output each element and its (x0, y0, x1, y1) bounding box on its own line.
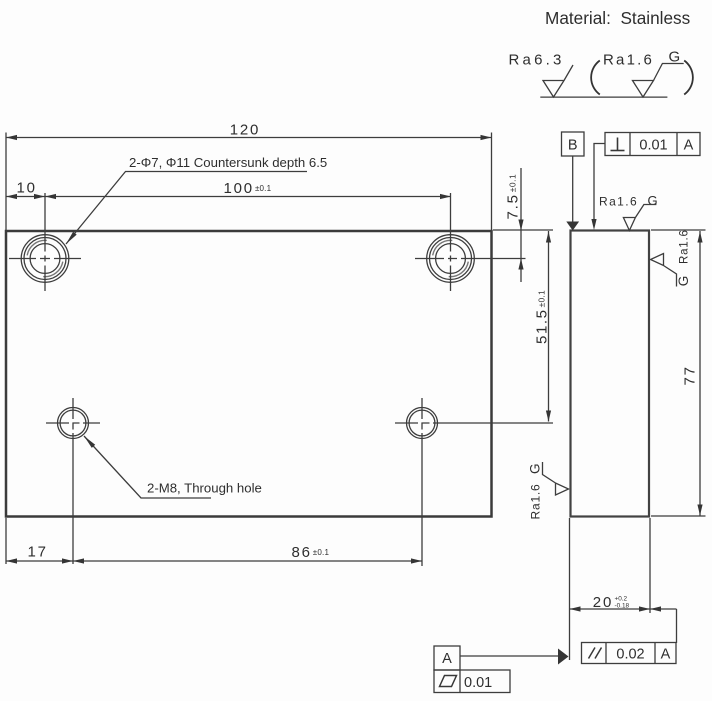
parallelism symbol (589, 648, 602, 659)
side view right edge extension down (649, 518, 651, 613)
svg-text:A: A (661, 647, 671, 663)
datum B box (562, 132, 585, 156)
svg-text:10: 10 (17, 180, 37, 197)
countersunk hole top-right chamfer circle (430, 238, 472, 280)
dimension 51.5 line (548, 231, 550, 422)
svg-text:77: 77 (682, 365, 699, 385)
M8 hole bottom-right core circle (409, 410, 435, 436)
svg-text:Ra1.6: Ra1.6 (679, 229, 691, 264)
perpendicularity frame (605, 133, 700, 156)
svg-text:A: A (684, 138, 694, 154)
dimension 77 line (699, 231, 701, 516)
side view top edge extension right (651, 229, 706, 231)
leader for countersunk holes (66, 172, 307, 245)
flatness symbol (440, 676, 457, 687)
flatness frame (434, 670, 510, 693)
countersunk hole top-left outer circle (21, 235, 69, 283)
side view bottom edge extension right (651, 515, 706, 517)
M8 hole bottom-left outer circle (58, 408, 89, 439)
svg-text:Ra1.6: Ra1.6 (599, 195, 638, 209)
side view outline (571, 231, 650, 517)
M8 hole bottom-right centerlines (395, 422, 553, 424)
svg-text:0.02: 0.02 (616, 647, 644, 663)
parallelism frame (582, 643, 677, 664)
perpendicularity symbol (611, 138, 625, 151)
svg-text:Ra1.6: Ra1.6 (603, 52, 654, 69)
svg-text:G: G (676, 276, 691, 287)
side view top surface symbol (623, 205, 656, 231)
svg-text:+0.2: +0.2 (615, 595, 628, 602)
M8 hole bottom-left core circle (60, 410, 86, 436)
datum B triangle (566, 222, 579, 231)
side view right surface symbol (651, 254, 677, 287)
svg-text:G: G (669, 49, 681, 66)
countersunk hole top-right bore circle (436, 244, 466, 274)
legend surface symbol 1 (543, 65, 573, 97)
svg-text:0.01: 0.01 (464, 675, 492, 691)
datum A box (434, 646, 460, 670)
dimension 120 line (6, 137, 492, 139)
dimension 17 and 86 line (6, 560, 422, 562)
countersunk hole top-right centerlines (415, 258, 526, 260)
M8 hole bottom-right outer circle (407, 408, 438, 439)
top edge right extension line (493, 229, 553, 231)
dimension 7.5 line (520, 168, 522, 282)
svg-text:17: 17 (28, 544, 48, 561)
svg-text:-0.18: -0.18 (615, 602, 630, 609)
datum A leader (460, 655, 558, 657)
svg-text:2-Φ7, Φ11 Countersunk depth 6.: 2-Φ7, Φ11 Countersunk depth 6.5 (129, 155, 327, 170)
svg-text:120: 120 (230, 122, 260, 139)
leader for M8 holes (84, 436, 211, 498)
countersunk hole top-left bore circle (30, 244, 60, 274)
M8 hole bottom-left centerlines (46, 422, 100, 424)
svg-text:A: A (442, 651, 452, 667)
side view left-bottom surface symbol (543, 462, 569, 495)
datum A triangle (558, 649, 569, 665)
countersunk hole top-right thread arcs (433, 240, 469, 276)
svg-text:G: G (528, 463, 543, 474)
svg-text:B: B (568, 138, 578, 154)
countersunk hole top-left thread arcs (27, 240, 63, 276)
svg-text:0.01: 0.01 (639, 138, 667, 154)
countersunk hole top-right outer circle (427, 235, 475, 283)
legend baseline (540, 96, 667, 98)
svg-text:Ra1.6: Ra1.6 (529, 483, 543, 519)
dimension 20 line (570, 608, 677, 610)
side view left edge extension down (569, 518, 571, 660)
countersunk hole top-left chamfer circle (24, 238, 66, 280)
legend open paren (591, 61, 600, 95)
svg-text:Material: Stainless: Material: Stainless (545, 8, 690, 28)
parallelism frame leader (676, 609, 678, 643)
dimension 120 extension lines (5, 133, 7, 231)
front view plate outline (6, 231, 492, 517)
svg-text:20: 20 (593, 594, 613, 611)
dimension 10 and 100 line (6, 196, 451, 198)
svg-text:2-M8, Through hole: 2-M8, Through hole (147, 481, 262, 496)
svg-text:G: G (648, 193, 658, 208)
legend surface symbol 2 with G (633, 64, 684, 98)
datum B leader (572, 156, 574, 222)
legend close paren (684, 61, 693, 95)
perpendicularity leader (594, 144, 605, 227)
countersunk hole top-left centerlines (9, 258, 81, 260)
dimension 17 and 86 extension line left (5, 518, 7, 564)
svg-text:Ra6.3: Ra6.3 (509, 52, 565, 69)
